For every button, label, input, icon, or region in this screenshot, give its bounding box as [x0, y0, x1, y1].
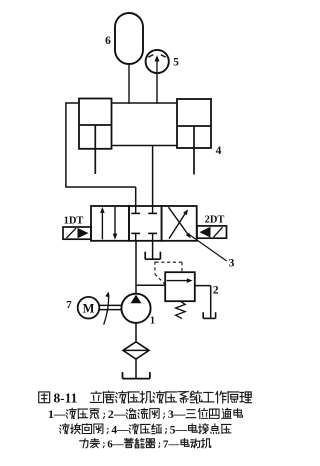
motor 7 (circle): [78, 297, 100, 319]
cylinder 4 left (barrel): [79, 99, 112, 149]
wire port B drop: [152, 146, 154, 207]
wire P line (pump to valve): [135, 241, 137, 295]
svg-text:—: —: [53, 407, 66, 421]
wire left vertical branch: [65, 102, 67, 187]
wire top manifold (piston-side line): [112, 102, 178, 104]
wire accumulator stem: [128, 64, 130, 104]
label 6: [105, 35, 111, 47]
relief valve 2 spring: [176, 301, 186, 318]
pilot dashed line to relief valve top: [156, 262, 183, 272]
wire filter to tank: [135, 359, 137, 378]
shaft coupling (double line): [99, 305, 121, 309]
cylinder 4 right (barrel): [177, 99, 211, 148]
tank at relief valve outlet: [203, 312, 215, 318]
caption line 1—液压泵；2—溢流阀；3—三位四通电: [48, 407, 243, 421]
caption title 图8-11 立磨液压机液压系统工作原理: [39, 390, 252, 405]
pump 1 (circle): [121, 294, 150, 323]
label 2: [213, 285, 219, 297]
pump 1 outlet triangle: [131, 295, 142, 304]
svg-text:—: —: [116, 424, 129, 436]
solenoid 1DT triangle: [78, 228, 89, 238]
pressure gauge 5 (dial circle): [146, 50, 169, 73]
tank at T port: [145, 252, 160, 260]
wire T line (valve to tank): [152, 241, 154, 259]
wire pump suction: [135, 323, 137, 342]
solenoid 1DT box: [63, 227, 91, 239]
label 2DT: [205, 215, 225, 226]
svg-text:4: 4: [216, 145, 222, 157]
filter (diamond): [123, 342, 149, 359]
svg-text:—: —: [113, 407, 126, 421]
svg-text:3: 3: [229, 258, 235, 270]
relief valve 2 body: [165, 272, 195, 301]
svg-text:5: 5: [173, 57, 179, 69]
wire relief valve outlet: [195, 286, 211, 318]
label 4: [216, 145, 222, 157]
cylinder 4 left piston: [79, 124, 112, 126]
wire lower horizontal branch: [65, 186, 136, 188]
cylinder 4 left rod: [94, 125, 96, 174]
solenoid 2DT slash: [214, 227, 223, 237]
svg-text:M: M: [83, 301, 95, 315]
cylinder 4 right rod: [193, 126, 195, 175]
caption line 力表；6—蓄能器；7—电动机: [80, 438, 211, 450]
wire left port feed: [66, 102, 79, 104]
motor 7 letter M: [83, 301, 95, 315]
svg-text:6: 6: [105, 35, 111, 47]
valve 3 centre blocked ports: [131, 206, 157, 241]
wire relief valve inlet branch: [136, 284, 165, 286]
leader line to 3: [188, 234, 226, 261]
svg-text:2: 2: [213, 285, 219, 297]
svg-text:—: —: [174, 424, 187, 436]
wire port A drop: [135, 187, 137, 207]
svg-text:1DT: 1DT: [64, 216, 84, 227]
label 1DT: [64, 216, 84, 227]
cylinder 4 right piston: [177, 125, 211, 127]
svg-text:8-11: 8-11: [53, 390, 77, 405]
svg-text:—: —: [112, 438, 125, 450]
svg-text:1: 1: [150, 316, 155, 327]
valve 3 left position arrows: [100, 207, 117, 240]
solenoid 1DT slash: [67, 228, 77, 238]
rotation arrow arc: [104, 292, 110, 325]
label 5: [173, 57, 179, 69]
relief valve 2 internal arrow: [167, 278, 193, 283]
valve 3 left position box: [91, 206, 129, 241]
label 3: [229, 258, 235, 270]
accumulator 6 (capsule shell): [115, 13, 143, 64]
svg-text:—: —: [167, 438, 180, 450]
label 7: [66, 299, 72, 311]
label 1: [150, 316, 155, 327]
valve 3 right position box: [162, 206, 197, 241]
svg-text:—: —: [173, 407, 186, 421]
tank (main reservoir): [123, 372, 150, 379]
svg-text:2DT: 2DT: [205, 215, 225, 226]
svg-text:7: 7: [66, 299, 72, 311]
pilot dashed line to relief valve inlet: [155, 262, 165, 285]
solenoid 2DT box: [197, 226, 227, 238]
valve 3 centre position box: [129, 206, 162, 241]
solenoid 2DT triangle: [200, 227, 211, 238]
wire gauge stem: [156, 73, 158, 104]
wire bottom manifold (rod-side line): [112, 145, 178, 147]
caption line 液换向阀；4—液压缸；5—电接点压: [60, 424, 231, 437]
valve 3 right crossed arrows: [169, 207, 191, 238]
